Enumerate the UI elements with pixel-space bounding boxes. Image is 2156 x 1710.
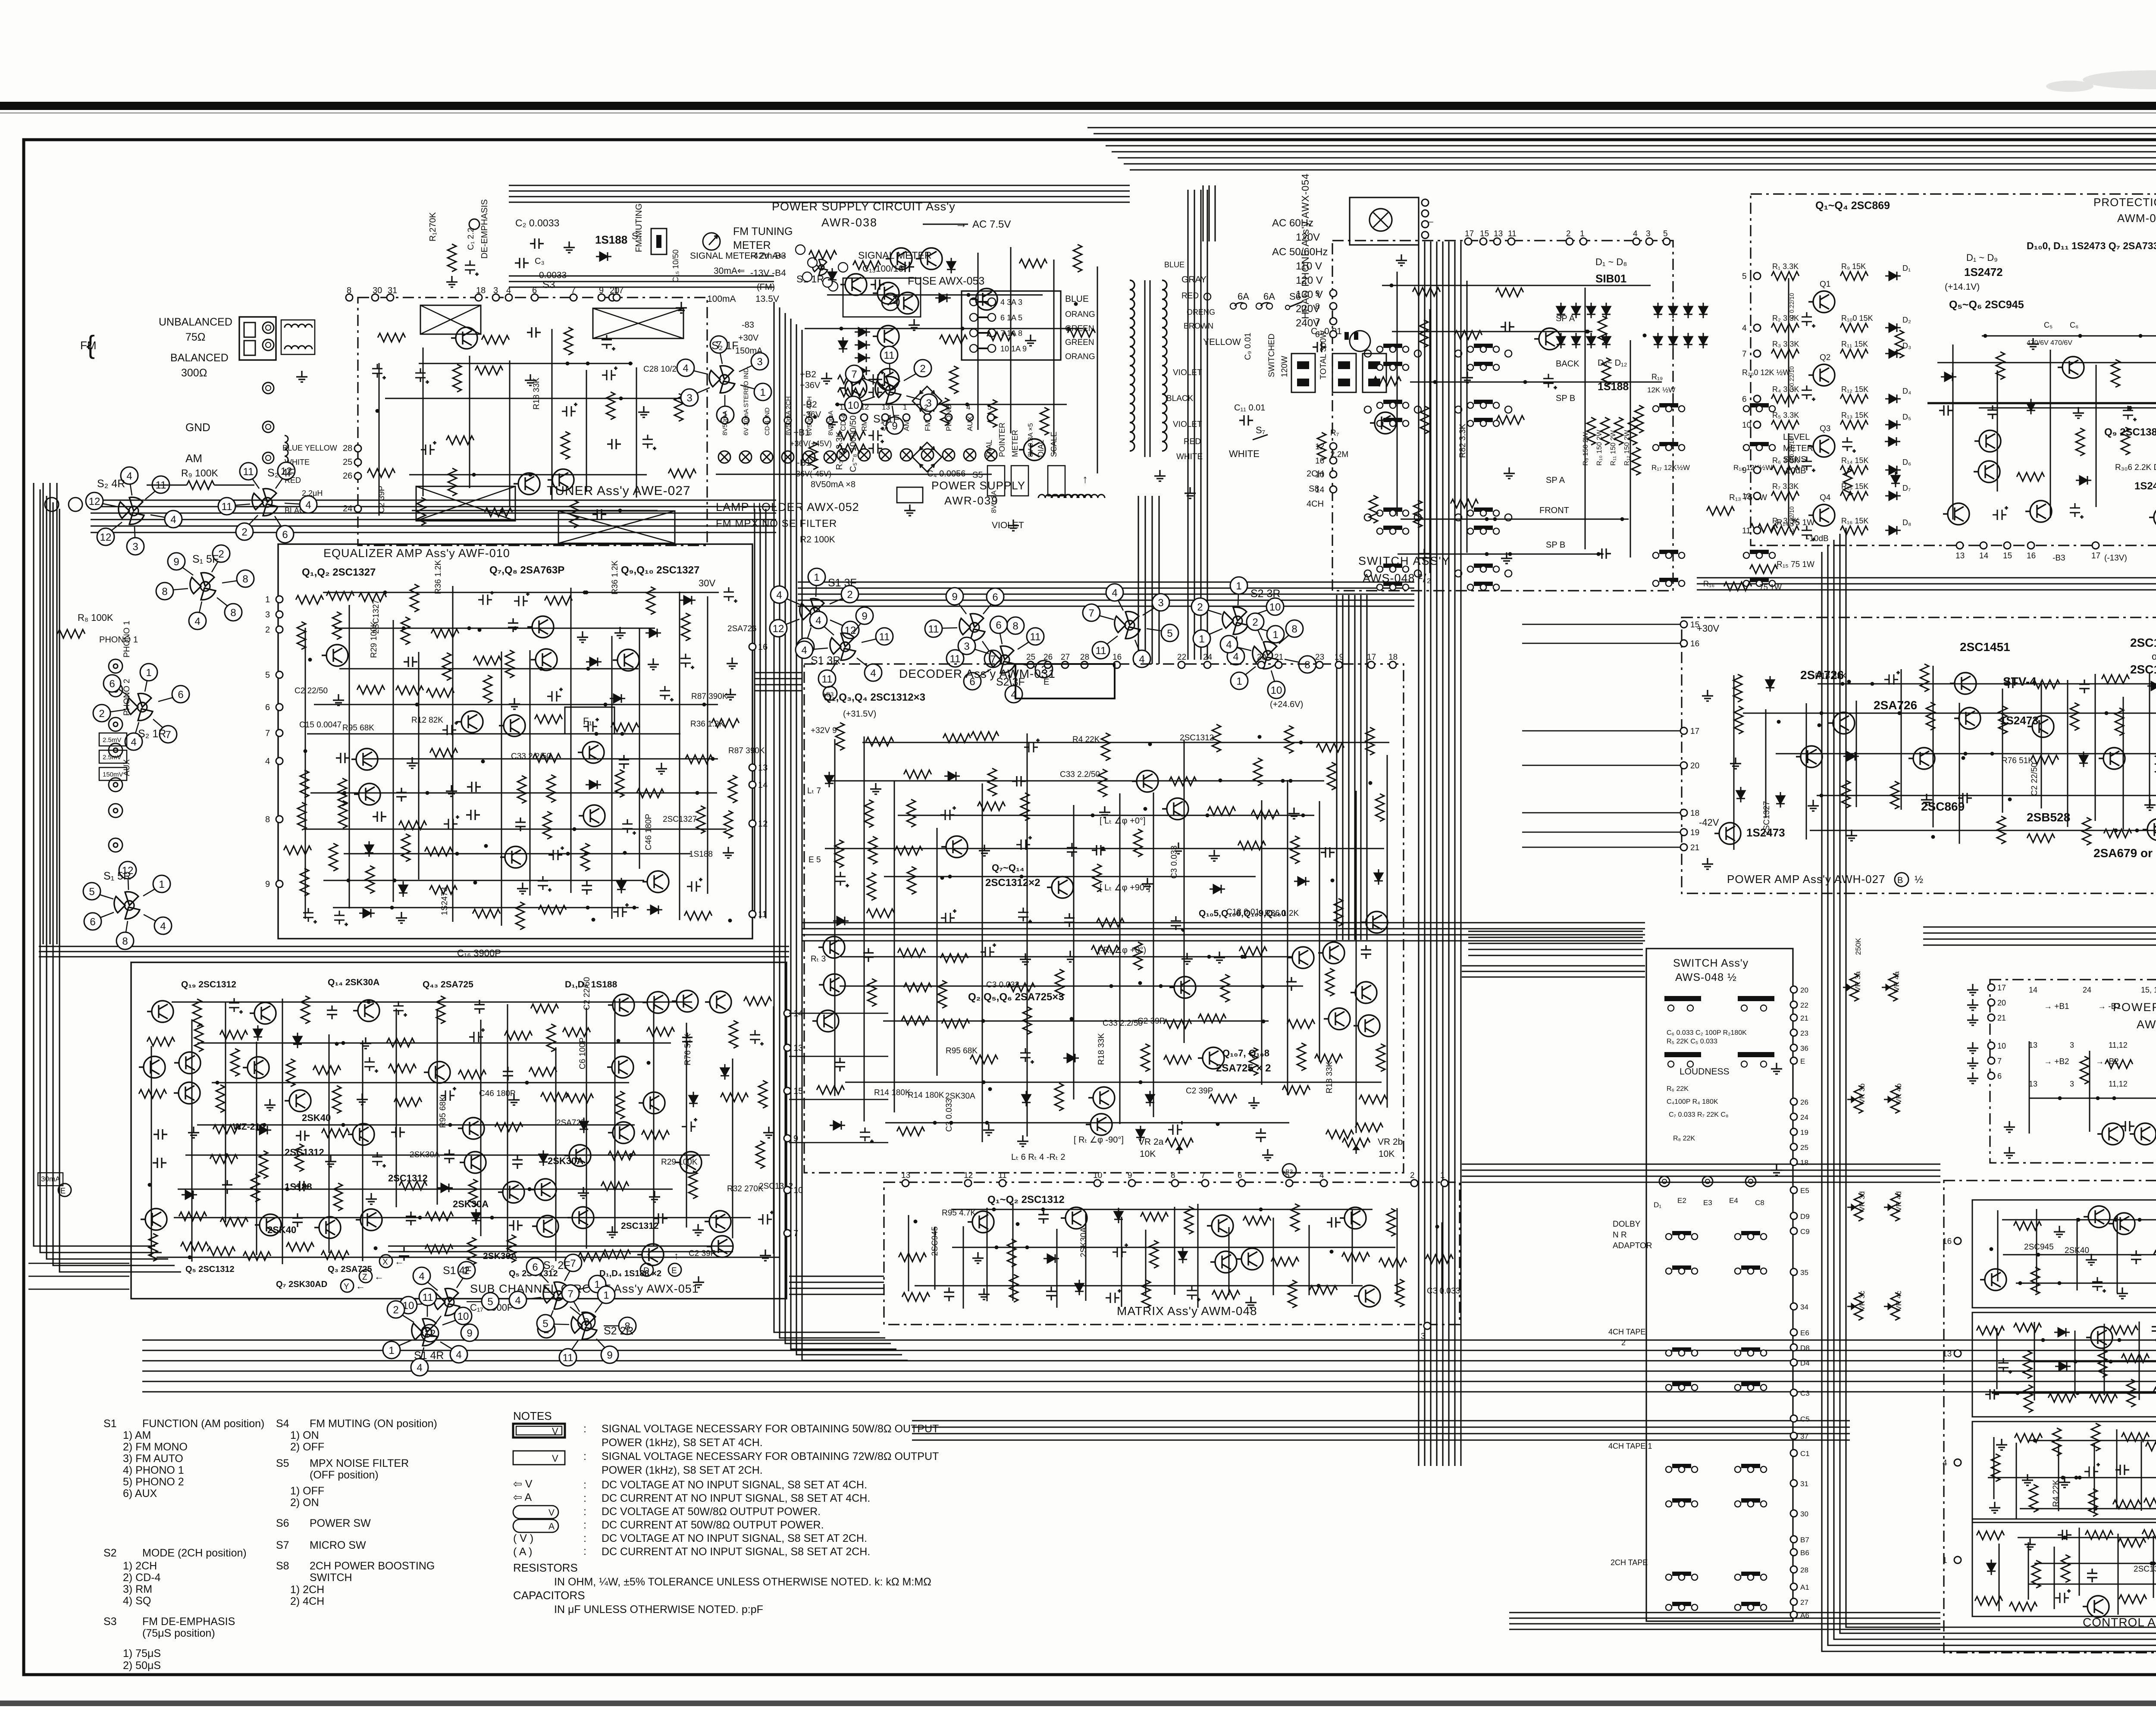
svg-text:DC CURRENT AT 50W/8Ω OUTPUT P: DC CURRENT AT 50W/8Ω OUTPUT POWER. [602, 1519, 824, 1531]
svg-text:5: 5 [487, 1296, 493, 1308]
svg-text:Q2: Q2 [1820, 353, 1830, 362]
svg-text:R95 68K: R95 68K [946, 1046, 978, 1055]
svg-text:6: 6 [532, 1262, 538, 1273]
svg-text:Q₄₃ 2SA725: Q₄₃ 2SA725 [423, 980, 473, 990]
svg-text:2CH TAPE: 2CH TAPE [1611, 1558, 1648, 1567]
svg-text:7: 7 [165, 729, 171, 741]
svg-text:15, 16: 15, 16 [2141, 986, 2156, 994]
svg-text:S6: S6 [276, 1517, 289, 1529]
svg-text:R₁₂ 150 2W: R₁₂ 150 2W [1623, 429, 1631, 466]
svg-text:S₂ 2F: S₂ 2F [543, 1259, 570, 1272]
svg-text:R₈ 22K: R₈ 22K [1673, 1135, 1695, 1142]
svg-text:11: 11 [884, 350, 895, 361]
svg-text:9: 9 [1742, 466, 1747, 475]
svg-text:FM MUTING (ON position): FM MUTING (ON position) [310, 1418, 437, 1430]
svg-text:4: 4 [419, 1271, 424, 1282]
svg-text:4: 4 [801, 645, 807, 656]
svg-text:D₁ ~ D₉: D₁ ~ D₉ [1966, 252, 1998, 263]
svg-text:F₁: F₁ [583, 716, 592, 727]
svg-text:2SC1312: 2SC1312 [621, 1221, 659, 1231]
wire bus tuner-decoder vertical [774, 302, 880, 1332]
svg-text:C3 0.033: C3 0.033 [945, 1099, 954, 1132]
svg-text:R18 33K: R18 33K [532, 378, 541, 410]
svg-text:D₁: D₁ [1902, 264, 1911, 272]
svg-text:12: 12 [1742, 492, 1751, 501]
svg-text:11: 11 [1030, 631, 1041, 643]
svg-text:18: 18 [1388, 653, 1398, 662]
svg-text:→ +B1: → +B1 [2044, 1002, 2069, 1011]
svg-text:DC CURRENT AT NO INPUT SIGNAL,: DC CURRENT AT NO INPUT SIGNAL, S8 SET AT… [602, 1492, 870, 1504]
svg-text::: : [583, 1519, 586, 1531]
svg-text:5: 5 [1742, 272, 1747, 281]
svg-text:4: 4 [1633, 229, 1638, 238]
svg-text:9: 9 [1128, 1171, 1132, 1180]
svg-text:17: 17 [2091, 551, 2100, 561]
svg-text:11: 11 [423, 1292, 433, 1303]
wire bus matrix to control [1462, 1163, 1940, 1165]
svg-text:A: A [548, 1522, 555, 1531]
svg-text:2) OFF: 2) OFF [290, 1441, 324, 1453]
svg-text:R₁₀ 150 2W: R₁₀ 150 2W [1596, 429, 1603, 466]
svg-text:D₄: D₄ [1902, 387, 1911, 395]
svg-text:-B3: -B3 [2053, 554, 2065, 563]
svg-text:11: 11 [1508, 229, 1517, 238]
wire bus below matrix 2 [912, 1420, 1850, 1421]
svg-text:C₁₆ 3900P: C₁₆ 3900P [457, 948, 501, 958]
svg-text:PHONO 1: PHONO 1 [99, 635, 138, 645]
svg-text:3: 3 [493, 286, 498, 295]
svg-text:15: 15 [2003, 551, 2012, 561]
svg-text:D₅: D₅ [1902, 413, 1911, 421]
svg-text:Y: Y [344, 1282, 349, 1291]
svg-text:30mA: 30mA [41, 1175, 60, 1183]
svg-text:13: 13 [1494, 229, 1503, 238]
svg-text:6: 6 [109, 678, 115, 690]
svg-text:C3 0.033: C3 0.033 [1170, 846, 1179, 879]
svg-text:1: 1 [146, 667, 151, 679]
wire stubs left column [28, 1263, 129, 1264]
svg-text:12: 12 [1315, 442, 1324, 451]
svg-text:Lₜ 6 Rₜ 4 -Rₜ 2: Lₜ 6 Rₜ 4 -Rₜ 2 [1011, 1153, 1065, 1162]
svg-text:BLUE YELLOW: BLUE YELLOW [282, 444, 337, 452]
svg-text:75 1W: 75 1W [1759, 583, 1782, 592]
svg-text:7: 7 [567, 1288, 573, 1300]
svg-text:DC VOLTAGE AT NO INPUT SIGNAL,: DC VOLTAGE AT NO INPUT SIGNAL, S8 SET AT… [602, 1532, 867, 1544]
svg-text:150mV: 150mV [103, 771, 123, 778]
svg-text:Q₁~Q₂ 2SC1312: Q₁~Q₂ 2SC1312 [987, 1194, 1065, 1206]
wire bus rosette row [798, 581, 1414, 583]
control amp assembly AWG-023 [1944, 1181, 2156, 1653]
svg-text:C2 22/50: C2 22/50 [2030, 763, 2039, 796]
svg-text:26: 26 [343, 471, 352, 481]
svg-text:D₆: D₆ [1902, 458, 1911, 467]
svg-text:4CH TAPE: 4CH TAPE [1608, 1328, 1645, 1336]
svg-text:YELLOW: YELLOW [1203, 337, 1241, 347]
svg-text:8V50mA ×8: 8V50mA ×8 [811, 480, 856, 489]
svg-text:2: 2 [265, 625, 270, 635]
svg-text:SCALE: SCALE [1050, 432, 1058, 457]
svg-text:VR 3c: VR 3c [1858, 1290, 1866, 1311]
svg-text:12: 12 [964, 1171, 973, 1180]
svg-text:3: 3 [757, 356, 762, 368]
svg-text:3: 3 [964, 641, 969, 652]
wire bus left mid [42, 483, 44, 944]
svg-text:5: 5 [1285, 1171, 1290, 1180]
svg-text:LEVEL: LEVEL [1783, 432, 1810, 442]
svg-text:AWS-048 ½: AWS-048 ½ [1675, 971, 1737, 983]
svg-text:POWER SUPPLY CIRCUIT Ass'y: POWER SUPPLY CIRCUIT Ass'y [772, 200, 956, 213]
svg-text:3: 3 [132, 541, 138, 553]
svg-text:3: 3 [2070, 1080, 2074, 1088]
svg-text:METER: METER [1783, 444, 1813, 453]
svg-text:IN μF UNLESS OTHERWISE NOTED.: IN μF UNLESS OTHERWISE NOTED. p:pF [554, 1604, 763, 1616]
svg-text:6V 30mA STEREO IND.: 6V 30mA STEREO IND. [743, 366, 750, 435]
svg-text:16: 16 [1315, 457, 1324, 466]
svg-text:1: 1 [265, 595, 270, 604]
svg-text:E2: E2 [1677, 1196, 1686, 1205]
svg-text:E: E [671, 1266, 677, 1275]
svg-text:2: 2 [241, 526, 247, 538]
svg-text:R87 390K: R87 390K [728, 746, 765, 755]
svg-text:R₁₁ 15K: R₁₁ 15K [1841, 340, 1868, 348]
svg-text:3: 3 [1646, 229, 1651, 238]
svg-text:AWH-027: AWH-027 [2137, 1018, 2156, 1031]
svg-text:15: 15 [1480, 229, 1489, 238]
svg-text:2: 2 [99, 708, 104, 720]
svg-text:10: 10 [793, 1186, 803, 1195]
svg-text:BALANCED: BALANCED [170, 352, 229, 364]
svg-text:3) FM AUTO: 3) FM AUTO [123, 1453, 183, 1465]
svg-text:1: 1 [159, 879, 164, 890]
svg-text:15: 15 [1690, 620, 1699, 630]
svg-text:2SC945: 2SC945 [2024, 1243, 2054, 1252]
svg-text:25: 25 [1026, 653, 1035, 662]
svg-text:(-13V): (-13V) [2104, 554, 2127, 563]
svg-text:S3: S3 [103, 1616, 117, 1628]
svg-text:24: 24 [2083, 986, 2091, 994]
wire stubs subch to decoder [789, 1013, 888, 1014]
svg-text:6: 6 [992, 592, 998, 603]
wire bus bottom left switches [388, 1245, 733, 1246]
svg-text:FUSE AWX-053: FUSE AWX-053 [908, 275, 984, 287]
svg-text:B: B [1897, 876, 1903, 885]
svg-text:S7: S7 [276, 1539, 289, 1551]
switch S1 5F [190, 573, 216, 600]
svg-text:R₁₁ 150 2W: R₁₁ 150 2W [1610, 430, 1617, 466]
svg-text:8V 0.3A ×5: 8V 0.3A ×5 [1027, 423, 1034, 457]
svg-text:E: E [1800, 1057, 1805, 1065]
svg-text:Q₉,Q₁₀ 2SC1327: Q₉,Q₁₀ 2SC1327 [621, 564, 699, 576]
svg-text:22: 22 [1177, 653, 1186, 662]
svg-text:R29 100K: R29 100K [370, 621, 379, 658]
svg-text:R95 4.7K: R95 4.7K [942, 1209, 976, 1218]
svg-text:28: 28 [1800, 1566, 1808, 1574]
svg-text:(75μS position): (75μS position) [142, 1627, 215, 1639]
svg-text:11: 11 [950, 653, 961, 665]
svg-text:4: 4 [1319, 1171, 1324, 1180]
svg-text:V: V [552, 1426, 558, 1437]
svg-text:8: 8 [1315, 302, 1320, 311]
svg-text:S6: S6 [1289, 291, 1301, 302]
svg-text:28: 28 [343, 444, 352, 453]
svg-text:2) CD-4: 2) CD-4 [123, 1572, 161, 1584]
svg-text:N R: N R [1613, 1231, 1627, 1240]
svg-text:4: 4 [417, 1362, 422, 1374]
svg-text:4: 4 [1226, 639, 1232, 651]
wire bus above equalizer [91, 499, 776, 501]
svg-text:D₁ ~ D₈: D₁ ~ D₈ [1595, 257, 1627, 267]
svg-text:VR 4a: VR 4a [1893, 971, 1901, 992]
svg-text:BROWN: BROWN [1184, 322, 1213, 330]
svg-text:2SK40: 2SK40 [2065, 1246, 2089, 1255]
svg-text:9: 9 [952, 591, 957, 603]
svg-text:FM MPX NOISE FILTER: FM MPX NOISE FILTER [716, 518, 837, 529]
svg-text:2) 4CH: 2) 4CH [290, 1595, 324, 1607]
svg-text:R₁₈ 12K½W: R₁₈ 12K½W [1733, 464, 1772, 472]
svg-text:13: 13 [2029, 1041, 2037, 1049]
svg-text:SUB CHANNEL CIRCUIT Ass'y AWX: SUB CHANNEL CIRCUIT Ass'y AWX-051 [470, 1282, 699, 1295]
svg-text:16: 16 [2027, 551, 2036, 561]
tuner assembly AWE-027 [358, 298, 707, 545]
svg-text:Q3: Q3 [1820, 424, 1830, 433]
svg-text:R95 68K: R95 68K [342, 723, 374, 733]
svg-text:5: 5 [265, 670, 270, 680]
svg-text:7: 7 [793, 1229, 798, 1238]
svg-text:R12 82K: R12 82K [411, 716, 443, 725]
svg-text:23: 23 [1315, 653, 1324, 662]
svg-text:1S2473: 1S2473 [440, 887, 449, 915]
svg-text:D₁: D₁ [1654, 1201, 1661, 1209]
svg-text:26: 26 [1044, 653, 1053, 662]
svg-text:27: 27 [1800, 1598, 1808, 1607]
svg-text:ORENG: ORENG [1187, 308, 1215, 316]
svg-text:R₅ 22K C₅ 0.033: R₅ 22K C₅ 0.033 [1667, 1038, 1717, 1045]
svg-text:S4: S4 [276, 1418, 289, 1430]
svg-text:E4: E4 [1729, 1196, 1738, 1205]
svg-text:C33 2.2/50: C33 2.2/50 [1103, 1019, 1143, 1028]
svg-text:4: 4 [506, 286, 511, 295]
svg-text:DIAL: DIAL [1037, 440, 1045, 457]
wire bus top tuner-psu [509, 185, 1130, 186]
svg-text:SQ: SQ [881, 420, 890, 431]
svg-text:14: 14 [758, 780, 768, 790]
svg-text:8: 8 [1012, 620, 1018, 632]
svg-text:12K ½W: 12K ½W [1647, 386, 1675, 394]
svg-text:VR 2b: VR 2b [1378, 1137, 1403, 1147]
svg-text:23: 23 [1800, 1029, 1808, 1037]
mains transformer [1130, 280, 1134, 290]
svg-text:D₈: D₈ [1902, 518, 1911, 527]
svg-text:S₂ 4F: S₂ 4F [267, 467, 295, 479]
svg-text:10K: 10K [1140, 1149, 1156, 1159]
svg-text:1S2473: 1S2473 [2134, 480, 2156, 492]
svg-text:DOLBY: DOLBY [1613, 1220, 1641, 1229]
svg-text:C46 180P: C46 180P [479, 1089, 516, 1098]
svg-text:10: 10 [1997, 1042, 2006, 1050]
svg-text:31: 31 [1800, 1480, 1808, 1488]
wire bus top-right nest [1130, 170, 2156, 914]
pencil smudge top right [2046, 70, 2156, 92]
svg-text:TOTAL 300W: TOTAL 300W [1319, 330, 1328, 379]
svg-text:11: 11 [563, 1352, 573, 1364]
svg-text:VIOLET: VIOLET [1173, 368, 1202, 377]
svg-text:C2 39P: C2 39P [377, 486, 386, 513]
svg-text:10: 10 [1093, 1171, 1102, 1180]
svg-text:8V50mA 2CH: 8V50mA 2CH [785, 396, 792, 435]
svg-text:FRONT: FRONT [1539, 506, 1569, 515]
top title bar [0, 102, 2156, 110]
wire bus between power amps [1923, 926, 2156, 927]
svg-text:16: 16 [1943, 1237, 1952, 1246]
svg-text:9: 9 [607, 1350, 612, 1361]
svg-text:2: 2 [847, 589, 852, 601]
svg-text:6: 6 [178, 689, 183, 701]
svg-text:1: 1 [1236, 676, 1242, 687]
svg-text::: : [583, 1532, 586, 1544]
svg-text:75Ω: 75Ω [185, 331, 206, 343]
svg-text:11: 11 [222, 501, 232, 513]
svg-text:C2 39P: C2 39P [1138, 1017, 1165, 1026]
svg-text:A6: A6 [1800, 1611, 1809, 1619]
svg-text:+B3: +B3 [823, 691, 834, 698]
svg-text:11,12: 11,12 [2109, 1041, 2128, 1049]
svg-text:2SC945: 2SC945 [931, 1226, 940, 1256]
svg-text:3) RM: 3) RM [123, 1583, 152, 1595]
svg-text:FM DE-EMPHASIS: FM DE-EMPHASIS [142, 1616, 235, 1628]
svg-text:18: 18 [1690, 809, 1699, 818]
svg-text:R36 1.2K: R36 1.2K [611, 560, 620, 595]
svg-text:17: 17 [1367, 653, 1376, 662]
svg-text:4: 4 [160, 921, 166, 932]
svg-text:(+14.1V): (+14.1V) [1945, 282, 1980, 292]
wire bus under matrix long [142, 1339, 2156, 1340]
svg-text:Q1: Q1 [1820, 280, 1830, 289]
svg-text:[ Rₜ ∠φ -90°]: [ Rₜ ∠φ -90°] [1074, 1135, 1124, 1145]
equalizer amp assembly AWF-010 [278, 544, 752, 939]
power amp assembly AWH-027 B 1/2 [1682, 617, 2156, 893]
svg-text:10 1A 9: 10 1A 9 [1000, 345, 1027, 353]
svg-text:2SK30A: 2SK30A [1079, 1227, 1088, 1257]
svg-text:or: or [2152, 651, 2156, 662]
svg-text:36: 36 [1800, 1044, 1808, 1052]
svg-text:POWER AMP Ass'y AWH-027: POWER AMP Ass'y AWH-027 [1727, 873, 1886, 886]
svg-text:DC VOLTAGE AT NO INPUT SIGNAL,: DC VOLTAGE AT NO INPUT SIGNAL, S8 SET AT… [602, 1479, 867, 1491]
svg-text:2SA726: 2SA726 [727, 624, 757, 633]
svg-text:LOUDNESS: LOUDNESS [1680, 1067, 1730, 1077]
svg-text:2SB528: 2SB528 [2027, 811, 2070, 824]
antenna terminal block [239, 317, 276, 360]
svg-text:S1 4F: S1 4F [443, 1265, 472, 1277]
svg-text:X: X [382, 1258, 388, 1267]
wire bus right mid join [1462, 965, 1645, 966]
svg-text:POWER (1kHz), S8 SET AT 4CH.: POWER (1kHz), S8 SET AT 4CH. [602, 1437, 763, 1449]
svg-text:R₁₂ 15K: R₁₂ 15K [1841, 385, 1868, 394]
svg-text:13: 13 [758, 763, 768, 773]
svg-text:1S188: 1S188 [595, 233, 627, 246]
svg-text:34: 34 [1800, 1303, 1808, 1311]
svg-text:ORANG: ORANG [1065, 310, 1095, 319]
svg-text:4: 4 [131, 736, 136, 748]
svg-text:19: 19 [1690, 828, 1699, 837]
svg-text:11: 11 [1742, 526, 1751, 536]
svg-text:8: 8 [230, 607, 236, 619]
svg-text:13: 13 [2029, 1080, 2037, 1088]
svg-text:DIAL: DIAL [985, 440, 993, 457]
svg-text:4: 4 [1112, 587, 1117, 599]
svg-text:R36 1.2K: R36 1.2K [1265, 909, 1299, 918]
svg-text:4: 4 [456, 1349, 461, 1361]
svg-text:FM TUNING: FM TUNING [733, 225, 793, 238]
svg-text:R₉ 100K: R₉ 100K [181, 467, 218, 479]
svg-text:7: 7 [571, 286, 576, 295]
svg-text:←: ← [395, 1256, 404, 1267]
svg-text:120W: 120W [1280, 356, 1289, 377]
svg-text:Q₇~Q₁₄: Q₇~Q₁₄ [992, 862, 1024, 873]
svg-text:→ +B2: → +B2 [2044, 1057, 2069, 1066]
svg-text:R18 33K: R18 33K [1097, 1033, 1106, 1065]
svg-text:V: V [552, 1453, 558, 1464]
svg-text:( A ): ( A ) [513, 1546, 532, 1558]
svg-text:6: 6 [1742, 395, 1747, 404]
svg-text:Q₁₀7, Q₁₀8: Q₁₀7, Q₁₀8 [1222, 1048, 1269, 1059]
svg-text:D4: D4 [1800, 1359, 1810, 1367]
svg-text::: : [583, 1545, 586, 1557]
svg-text:R14 180K: R14 180K [908, 1091, 944, 1100]
svg-text:ORANG: ORANG [1065, 352, 1095, 361]
svg-text:26: 26 [1800, 1098, 1808, 1106]
wire bus center corner to switch [1468, 930, 1643, 932]
svg-text:7: 7 [265, 729, 270, 738]
svg-text:4: 4 [815, 615, 821, 626]
svg-text:13.5V: 13.5V [755, 294, 779, 304]
svg-text:R₈ 3.3K: R₈ 3.3K [1772, 517, 1799, 525]
svg-text:4: 4 [683, 363, 688, 374]
svg-text:TUNER Ass'y AWE-027: TUNER Ass'y AWE-027 [547, 484, 691, 498]
svg-text:C6 100P: C6 100P [578, 1037, 587, 1069]
svg-text:2: 2 [920, 363, 925, 375]
svg-text:DC VOLTAGE AT 50W/8Ω OUTPUT P: DC VOLTAGE AT 50W/8Ω OUTPUT POWER. [602, 1506, 821, 1518]
svg-text:SIGNAL VOLTAGE NECESSARY FOR O: SIGNAL VOLTAGE NECESSARY FOR OBTAINING 7… [602, 1450, 939, 1463]
svg-text:2SC1312×2: 2SC1312×2 [985, 877, 1040, 889]
svg-text:(+31.5V): (+31.5V) [843, 709, 876, 719]
svg-text:2SC1312: 2SC1312 [388, 1173, 428, 1184]
svg-text:5: 5 [1663, 229, 1668, 238]
svg-text:2: 2 [924, 403, 928, 411]
svg-text:2.5mV: 2.5mV [103, 736, 121, 744]
svg-text:2: 2 [1252, 617, 1258, 628]
svg-text:C3: C3 [1800, 1389, 1810, 1397]
svg-text:10: 10 [1742, 421, 1751, 430]
wire bus left vertical [34, 483, 155, 1246]
svg-text:S₂ 1F: S₂ 1F [711, 340, 739, 352]
svg-text:ADAPTOR: ADAPTOR [1613, 1241, 1652, 1250]
svg-text:2SC1312: 2SC1312 [285, 1147, 324, 1158]
svg-text:B7: B7 [1800, 1536, 1809, 1544]
svg-text:250K: 250K [1854, 938, 1862, 955]
svg-text:12: 12 [100, 532, 112, 543]
svg-text:2SA725 × 2: 2SA725 × 2 [1216, 1062, 1271, 1074]
svg-text:↑: ↑ [674, 1250, 679, 1261]
svg-text:6: 6 [532, 286, 537, 295]
svg-text:18: 18 [1800, 1159, 1808, 1167]
svg-text:←: ← [374, 1271, 384, 1282]
svg-text:R18 33K: R18 33K [1815, 672, 1847, 681]
svg-text:CONTROL AMP Ass'y AWG-023: CONTROL AMP Ass'y AWG-023 [2083, 1616, 2156, 1629]
svg-text:R95 68K: R95 68K [439, 1096, 448, 1128]
svg-text:11: 11 [1096, 645, 1106, 657]
lamp holder AWX-052 [709, 366, 735, 393]
svg-text:S1 3R: S1 3R [811, 655, 840, 667]
